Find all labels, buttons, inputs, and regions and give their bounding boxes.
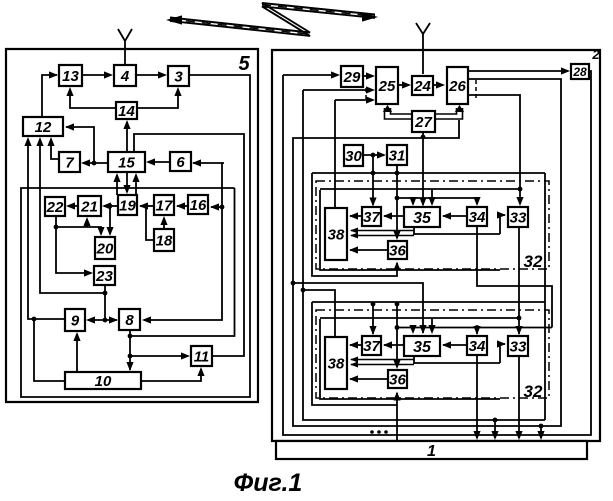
svg-text:34: 34	[469, 209, 486, 226]
svg-text:17: 17	[156, 197, 173, 214]
svg-text:32: 32	[524, 382, 543, 401]
svg-text:34: 34	[469, 338, 486, 355]
svg-text:33: 33	[510, 209, 527, 226]
svg-text:35: 35	[413, 210, 432, 227]
svg-text:32: 32	[524, 252, 543, 271]
svg-text:38: 38	[328, 355, 345, 372]
svg-text:Фиг.1: Фиг.1	[234, 469, 303, 496]
svg-text:10: 10	[95, 373, 112, 390]
svg-text:31: 31	[389, 147, 406, 164]
svg-text:37: 37	[363, 338, 380, 355]
svg-text:2: 2	[591, 47, 600, 62]
svg-text:24: 24	[413, 78, 431, 95]
svg-text:23: 23	[95, 268, 113, 285]
svg-text:7: 7	[65, 154, 74, 171]
svg-text:20: 20	[96, 240, 114, 257]
svg-text:36: 36	[389, 371, 406, 388]
svg-text:27: 27	[414, 114, 432, 131]
svg-text:18: 18	[156, 232, 173, 249]
svg-text:11: 11	[194, 348, 210, 365]
svg-text:38: 38	[328, 226, 345, 243]
svg-text:26: 26	[448, 78, 466, 95]
svg-text:13: 13	[62, 68, 79, 85]
svg-text:6: 6	[176, 154, 185, 171]
svg-text:36: 36	[389, 242, 406, 259]
svg-text:19: 19	[119, 197, 136, 214]
svg-text:29: 29	[343, 69, 361, 86]
svg-text:28: 28	[572, 65, 587, 79]
svg-text:4: 4	[120, 68, 130, 85]
svg-text:14: 14	[118, 103, 135, 120]
svg-text:35: 35	[413, 339, 432, 356]
svg-text:16: 16	[190, 197, 207, 214]
svg-text:5: 5	[238, 53, 250, 75]
svg-text:9: 9	[71, 312, 80, 329]
svg-text:33: 33	[510, 338, 527, 355]
svg-text:25: 25	[378, 78, 396, 95]
svg-text:22: 22	[46, 199, 64, 216]
svg-text:3: 3	[174, 68, 183, 85]
svg-text:21: 21	[80, 198, 98, 215]
svg-text:8: 8	[125, 312, 134, 329]
svg-text:15: 15	[118, 154, 135, 171]
svg-text:12: 12	[35, 119, 52, 136]
svg-text:1: 1	[427, 443, 436, 460]
svg-text:30: 30	[345, 148, 362, 165]
svg-text:37: 37	[363, 209, 380, 226]
